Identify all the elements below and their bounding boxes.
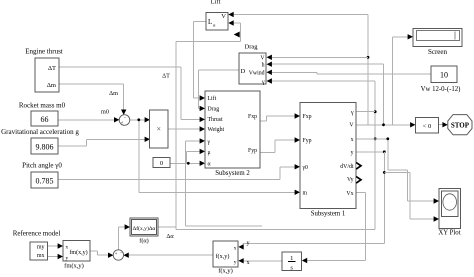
wire ΔT from Engine thrust to Subsystem 2 Thrust input [59,66,181,68]
constant block 9.806 [31,138,58,154]
arrowhead into XY plot input 2 [434,216,439,221]
arrowhead into Subsystem 2 gamma [200,138,205,143]
svg-text:Vy: Vy [347,177,354,183]
subsystem block Subsystem 1 [300,103,356,209]
node mass junction [137,118,140,121]
wire Vx output of Subsystem 1 to integrator [356,192,366,194]
svg-text:y: y [234,259,237,265]
svg-text:Δm: Δm [47,82,56,89]
svg-text:Drag: Drag [245,44,259,51]
svg-text:α: α [208,162,211,168]
arrowhead into fm block y input [58,254,63,259]
svg-text:x: x [66,244,69,250]
function block L alpha lift [206,13,228,31]
svg-text:0.785: 0.785 [36,176,54,185]
svg-text:66: 66 [41,115,49,124]
svg-text:Subsystem 1: Subsystem 1 [311,211,346,218]
svg-text:γ: γ [207,139,211,145]
wire gamma feedback to Subsystem 2 gamma input [185,141,187,226]
svg-text:Pitch angle γ0: Pitch angle γ0 [22,162,62,170]
svg-text:−: − [124,116,127,121]
arrowhead into sum junction top [121,110,126,115]
svg-text:Fxp: Fxp [303,114,312,120]
arrowhead into Subsystem 2 Drag [200,106,205,111]
arrowhead into fm block x input [58,243,63,248]
arrowhead into product block input 2 [145,137,150,142]
svg-text:Weight: Weight [208,127,225,133]
svg-text:Fyp: Fyp [248,148,257,154]
wire mass m from sum junction to product block [130,119,145,121]
subsystem block Subsystem 2 [205,91,260,168]
wire y branch down to f(x,y) [383,152,385,244]
svg-text:Lift: Lift [208,95,217,102]
svg-text:D: D [241,68,246,75]
svg-text:y: y [66,255,69,261]
arrowhead into Subsystem 1 Fxp [295,113,300,118]
function block fm(x,y) [63,241,90,262]
svg-text:fm(x,y): fm(x,y) [69,249,87,256]
arrowhead into Subsystem 2 Lift [200,95,205,100]
node y branch to XY plot [383,171,386,174]
arrowhead into lift block second input [228,20,233,25]
arrowhead into Subsystem 1 Fyp [295,137,300,142]
function block f(x,y) [213,241,238,267]
wire gamma into drag block [272,80,375,82]
wire m0 from Rocket mass block to sum junction [58,119,114,121]
wire stub arrowhead near lift block [234,32,240,38]
sum junction top [119,115,130,126]
wire g from 9.806 block to product block [58,145,87,147]
svg-text:V: V [221,13,226,20]
arrowhead into f(alpha) block [125,224,130,229]
product block [150,110,169,148]
relational operator block < 0 [416,118,439,134]
arrowhead into Screen [408,34,413,39]
wire V feedback to lift block V input [233,14,368,16]
arrowhead into sum junction left [114,117,119,122]
wire fm output to sum junction [90,250,98,252]
svg-text:+: + [115,250,118,255]
gain block delta f(x,y) delta alpha f(alpha) [130,218,158,236]
scope block XY Plot [439,189,461,229]
svg-text:STOP: STOP [451,121,470,129]
wire 0.785 gamma0 to Subsystem 1 [58,179,280,181]
wire alpha from f(alpha) block up to lift block input [158,226,176,228]
arrowhead into drag block h input [267,62,272,67]
wire my from reference model [48,245,59,247]
arrowhead into integrator right side [302,258,307,263]
svg-text:γ: γ [261,79,265,85]
node gamma junction [374,110,377,113]
wire Δm from Engine thrust down to sum junction [59,83,124,85]
svg-text:XY Plot: XY Plot [438,230,460,237]
svg-text:+: + [121,119,124,124]
svg-text:Screen: Screen [428,48,448,56]
svg-text:x: x [351,137,354,143]
svg-text:dV/dt: dV/dt [340,164,354,170]
node h junction [382,123,385,126]
arrowhead into Subsystem 1 gamma0 [295,164,300,169]
wire h from drag block to altitude line [272,63,384,65]
arrowhead into drag block gamma input [267,78,272,83]
svg-text:9.806: 9.806 [36,142,54,151]
wire L output of lift block to Subsystem 2 Lift input [194,21,206,23]
source block Engine thrust [35,58,59,92]
source block my mx reference model [30,242,48,260]
arrowhead into relational operator [410,122,415,127]
svg-text:Δm: Δm [109,90,118,97]
svg-text:×: × [157,124,162,133]
svg-text:Subsystem 2: Subsystem 2 [215,170,250,177]
integrator block 1/s [282,252,302,271]
arrowhead into drag block Vwind input [267,70,272,75]
pin dV/dt unconnected chevron [356,163,361,169]
arrowhead into bottom sum right from f(x,y) [123,253,128,258]
arrowhead into Subsystem 2 mu [200,149,205,154]
node x junction [386,137,389,140]
node crossing junction [374,137,377,140]
svg-text:< 0: < 0 [423,123,432,130]
wire x output of Subsystem 1 to XY plot first input [356,138,388,140]
arrowhead into drag block V input [267,55,272,60]
svg-text:x: x [234,245,237,251]
svg-text:h: h [262,63,265,69]
node y junction [383,150,386,153]
svg-text:Rocket mass m0: Rocket mass m0 [19,102,66,110]
pin Vy unconnected chevron [356,177,361,183]
svg-text:m0: m0 [101,109,109,116]
svg-text:10: 10 [440,70,448,79]
svg-text:0: 0 [160,160,163,167]
wire y output of Subsystem 1 [356,151,384,153]
svg-text:μ: μ [208,150,211,156]
scope block Screen [413,29,462,47]
function block Drag [239,53,266,84]
svg-text:Fxp: Fxp [248,114,257,120]
wire V output of Subsystem 1 to relational operator [356,124,410,126]
svg-text:Vw 12-0-(-12): Vw 12-0-(-12) [421,86,461,93]
svg-text:1: 1 [290,255,293,262]
svg-text:f(x,y): f(x,y) [218,268,233,275]
arrowhead into Subsystem 2 alpha [200,161,205,166]
wire sum output up to f(alpha) block [117,227,119,250]
wire x from integrator to f(x,y) [244,260,283,262]
wire V branch up to lift and drag [367,15,369,125]
svg-text:Δf(x,y)Δα: Δf(x,y)Δα [133,225,156,232]
svg-text:γ: γ [350,110,354,116]
constant block 0 [153,158,170,168]
wire Vwind from 10 block to drag block [272,71,317,73]
wire Fxp from Subsystem 2 to Subsystem 1 [260,120,267,122]
svg-text:Drag: Drag [208,107,220,113]
svg-text:f(α): f(α) [139,238,148,245]
arrowhead into lift block V input [228,12,233,17]
node junction on 0 wire [187,162,190,165]
svg-text:−: − [120,250,123,255]
svg-text:Lift: Lift [211,0,221,6]
svg-text:L: L [208,18,212,26]
wire branch to mu input [186,151,188,163]
constant block 10 wind speed [431,66,457,83]
svg-text:fm(x,y): fm(x,y) [64,263,84,270]
arrowhead into Subsystem 2 Thrust [200,117,205,122]
arrowhead into Subsystem 1 m [295,190,300,195]
svg-text:Vwind: Vwind [249,71,265,77]
arrowhead into bottom sum left [108,253,113,258]
svg-text:ΔT: ΔT [162,73,170,80]
wire V into drag block [272,56,368,58]
wire Fyp from Subsystem 2 to Subsystem 1 [260,151,275,153]
svg-text:Engine thrust: Engine thrust [25,48,63,56]
constant block 0.785 [31,172,58,188]
constant block 66 [31,111,58,126]
wire mass m branch down to Subsystem 1 m input [138,120,140,193]
svg-text:m: m [303,191,308,197]
svg-text:y: y [247,239,251,246]
wire D output of drag block to Subsystem 2 Drag input [198,69,239,71]
node V junction at drag level [367,56,370,59]
svg-text:mx: mx [37,253,45,259]
svg-text:f(x,y): f(x,y) [216,253,230,260]
arrowhead into product block input 1 [145,117,150,122]
svg-text:γ0: γ0 [302,165,309,171]
svg-text:y: y [351,150,354,156]
arrowhead into XY plot input 1 [434,198,439,203]
wire gamma output of Subsystem 1 [356,111,375,113]
svg-text:Reference model: Reference model [13,230,61,238]
arrowhead into Subsystem 2 Weight [200,126,205,131]
wire from relational operator to STOP [439,124,443,126]
svg-text:Vx: Vx [346,191,353,197]
svg-text:Δα: Δα [166,233,174,240]
svg-text:my: my [37,244,45,250]
arrowhead into f(x,y) y port [238,258,243,263]
arrowhead into STOP block [442,122,447,127]
wire weight from product block to Subsystem 2 Weight input [168,128,201,130]
wire f(x,y) output back to sum junction [129,254,213,256]
wire y to XY plot second input [384,171,410,173]
svg-text:x: x [247,259,251,266]
svg-text:Gravitational acceleration g: Gravitational acceleration g [1,128,79,136]
wire to Screen scope [392,37,394,125]
sum junction bottom [113,250,123,260]
svg-text:ΔT: ΔT [48,65,56,72]
STOP block octagon [448,115,472,135]
wire 0 constant to Subsystem 2 alpha input [170,162,201,164]
svg-text:Thrust: Thrust [208,117,224,123]
wire mx from reference model [48,256,59,258]
arrowhead into f(x,y) x port [238,244,243,249]
svg-text:Fyp: Fyp [303,138,312,144]
